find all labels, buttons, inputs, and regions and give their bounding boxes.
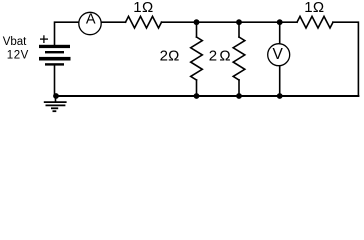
resistor R1 1 ohm (top left zigzag) [126,16,162,28]
wire node C down to voltmeter top terminal [279,22,281,44]
node A junction dot (top, R2) [194,19,200,25]
node B junction dot (top, R3) [236,19,242,25]
wire ammeter to resistor R1 [101,21,125,23]
wire voltmeter bottom terminal down to bottom rail [279,66,281,96]
node G junction dot (bottom, battery/ground) [53,93,59,99]
wire node A down to resistor R2 [196,22,198,37]
svg-text:V: V [273,46,284,63]
wire battery negative terminal down to ground node [54,66,56,96]
voltmeter V (circle meter) [268,44,290,66]
node F junction dot (bottom, voltmeter) [277,93,283,99]
wire R4 to top-right corner and down right edge [333,22,358,96]
svg-text:A: A [86,11,96,27]
svg-text:2Ω: 2Ω [209,48,233,65]
battery Vbat plates [39,45,71,66]
ground [44,102,67,111]
wire resistor R2 down to bottom rail [196,80,198,96]
resistor R3 2 ohm (second vertical zigzag) [233,37,245,80]
wire node B down to resistor R3 [238,22,240,37]
wire ground node stub [55,96,57,102]
wire bottom rail [56,95,358,97]
battery polarity plus sign [40,35,48,43]
svg-text:Vbat: Vbat [3,36,27,48]
wire resistor R3 down to bottom rail [238,80,240,96]
svg-text:12V: 12V [7,50,29,62]
node C junction dot (top, voltmeter) [277,19,283,25]
wire R1 to R4 along top rail [162,21,298,23]
svg-text:1Ω: 1Ω [133,0,153,16]
node E junction dot (bottom, R3) [236,93,242,99]
svg-text:2Ω: 2Ω [160,48,180,65]
svg-text:1Ω: 1Ω [304,0,324,16]
resistor R2 2 ohm (first vertical zigzag) [191,37,203,80]
node D junction dot (bottom, R2) [194,93,200,99]
resistor R4 1 ohm (top right zigzag) [297,16,333,28]
wire battery positive terminal up and right to ammeter [55,22,79,45]
ammeter A (circle meter) [79,11,101,34]
